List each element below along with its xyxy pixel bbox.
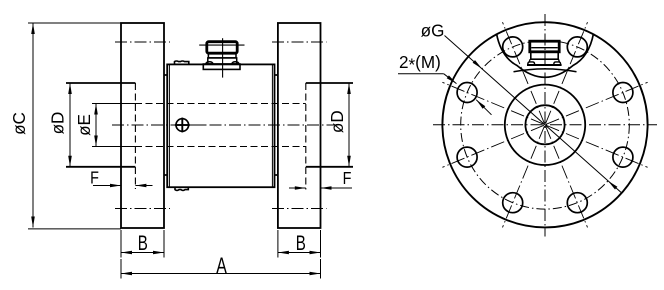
pilot boss bottom edge left xyxy=(66,166,135,168)
radial centerline hole 3 xyxy=(503,22,545,124)
leader 2*(M) opposing arrow xyxy=(476,100,491,115)
connector cap front xyxy=(530,41,559,52)
connector upper band side xyxy=(208,53,236,58)
hub circle xyxy=(505,85,585,165)
extension lines B left xyxy=(120,230,122,258)
dim F right xyxy=(289,187,306,189)
left flange upper bolt centerline xyxy=(115,41,170,43)
right flange plate xyxy=(278,23,321,228)
centerline left view horizontal xyxy=(112,124,334,126)
connector foot dome left xyxy=(206,62,213,64)
center bore circle xyxy=(525,105,564,144)
connector cap front seam xyxy=(531,47,558,49)
bolt hole 8 xyxy=(613,147,633,167)
sensor body xyxy=(167,64,274,187)
bolt hole 2 xyxy=(567,37,587,57)
radial centerline hole 6 xyxy=(503,126,545,227)
extension line oC bottom xyxy=(28,228,121,230)
dim line oD right xyxy=(348,83,350,167)
dim line A xyxy=(121,273,321,275)
bolt hole 5 xyxy=(457,147,477,167)
svg-text:B: B xyxy=(296,230,306,254)
leader 2*(M) xyxy=(398,73,444,75)
pilot boss top edge left xyxy=(66,82,135,84)
svg-text:øE: øE xyxy=(74,114,95,136)
left flange lower bolt centerline xyxy=(115,208,170,210)
connector vertical centerline xyxy=(222,38,224,77)
connector base plate side xyxy=(203,64,240,69)
extension line oC top xyxy=(28,22,121,24)
connector foot dome right xyxy=(232,62,239,64)
hidden bore edge left flange xyxy=(134,83,136,189)
hidden bore edge right flange xyxy=(305,83,307,190)
body inner edge right xyxy=(271,64,273,187)
svg-text:A: A xyxy=(216,255,227,279)
connector base plate front xyxy=(527,64,562,66)
bolt circle xyxy=(461,41,630,210)
hidden center-bore bottom line xyxy=(92,146,135,148)
bolt hole 1 xyxy=(613,83,633,103)
pilot boss bottom edge right xyxy=(306,166,353,168)
dim line oG xyxy=(445,36,622,193)
extension lines B right xyxy=(277,230,279,258)
dim line oE xyxy=(95,104,97,147)
bolt hole 6 xyxy=(503,193,523,213)
radial centerline hole 7 xyxy=(546,126,588,227)
radial centerline hole 2 xyxy=(546,22,588,124)
front view vertical centerline xyxy=(544,14,546,237)
svg-text:øG: øG xyxy=(421,20,445,41)
connector foot right front xyxy=(554,62,561,65)
extension lines A xyxy=(120,259,122,279)
radial centerline hole 4 xyxy=(442,82,544,124)
dim line B right xyxy=(278,252,321,254)
bolt hole 4 xyxy=(457,83,477,103)
neck edge bottom left xyxy=(164,174,167,176)
svg-text:øD: øD xyxy=(327,110,348,133)
connector pocket outline xyxy=(497,34,594,78)
svg-text:B: B xyxy=(138,230,148,254)
neck edge top left xyxy=(164,74,167,76)
bolt hole 7 xyxy=(567,193,587,213)
dim line oC xyxy=(32,23,34,228)
svg-text:F: F xyxy=(90,168,99,188)
connector boss arc xyxy=(514,69,577,72)
connector foot left front xyxy=(528,62,535,65)
hidden center-bore top line xyxy=(92,103,135,105)
radial centerline hole 5 xyxy=(442,125,544,167)
svg-text:F: F xyxy=(343,169,352,189)
connector lower band side xyxy=(208,58,237,64)
pilot boss top edge right xyxy=(306,82,353,84)
front view horizontal centerline xyxy=(433,124,657,126)
svg-text:2*(M): 2*(M) xyxy=(399,52,441,75)
flange outer circle xyxy=(442,22,647,227)
body inner edge left xyxy=(168,64,170,187)
left flange plate xyxy=(121,23,164,228)
neck edge bottom right xyxy=(275,174,278,176)
bolt hole 3 xyxy=(503,37,523,57)
seal tab top xyxy=(175,61,189,64)
right flange upper bolt centerline xyxy=(272,41,327,43)
connector cap side xyxy=(207,42,237,54)
radial centerline hole 1 xyxy=(546,82,648,124)
connector stem left front xyxy=(528,59,531,62)
right flange lower bolt centerline xyxy=(272,208,327,210)
neck edge top right xyxy=(275,74,278,76)
connector band front xyxy=(531,52,558,59)
connector stem right front xyxy=(558,59,561,62)
dim line oD left xyxy=(69,83,71,167)
radial centerline hole 8 xyxy=(546,125,648,167)
dim F left xyxy=(93,185,121,187)
svg-text:øD: øD xyxy=(47,112,68,135)
screw head xyxy=(176,119,189,132)
connector horizontal centerline xyxy=(199,44,244,46)
screw head centerline segment xyxy=(172,124,206,126)
dim line B left xyxy=(121,252,164,254)
svg-text:øC: øC xyxy=(8,112,29,135)
seal tab bottom xyxy=(175,187,188,190)
